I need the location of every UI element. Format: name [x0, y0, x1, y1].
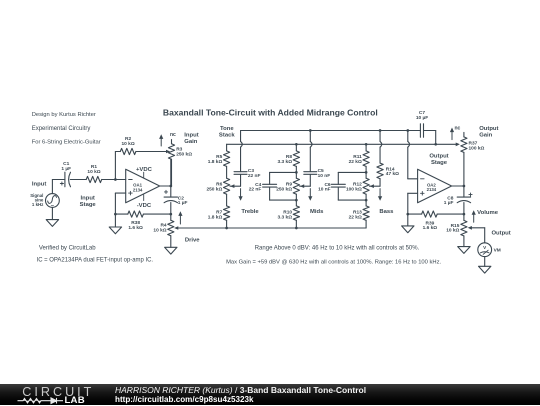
- label V1 signal: [30, 193, 44, 207]
- svg-text:Tone: Tone: [220, 126, 234, 132]
- wire topbus to R14: [379, 131, 381, 164]
- potentiometer R37: [461, 132, 467, 186]
- label Input: [32, 181, 46, 187]
- label Tone Stack: [219, 126, 235, 139]
- op-amp OA2: [418, 169, 452, 203]
- svg-text:Treble: Treble: [241, 209, 259, 215]
- label C5: [318, 168, 331, 179]
- wire pot to R13: [365, 194, 367, 206]
- wire R14 to R12 wiper: [370, 179, 381, 187]
- capacitor C8: [457, 193, 472, 203]
- footer text line 2: [115, 395, 254, 404]
- label R5: [208, 154, 223, 165]
- label C8: [444, 195, 454, 206]
- resistor R5: [224, 151, 230, 167]
- wire C4 top: [270, 172, 297, 184]
- label R12: [346, 182, 362, 193]
- note design-by: [32, 112, 96, 118]
- wire C8 to node C: [463, 203, 465, 215]
- label R39: [423, 220, 438, 231]
- wire R8 to pot: [295, 166, 297, 178]
- wire R11 top: [365, 144, 367, 151]
- wire OA2 plus input: [408, 193, 418, 226]
- svg-text:3.3 kΩ: 3.3 kΩ: [278, 215, 293, 221]
- svg-text:Stack: Stack: [219, 133, 235, 139]
- capacitor C6: [331, 184, 345, 187]
- svg-text:Design by Kurtus Richter: Design by Kurtus Richter: [32, 112, 96, 118]
- capacitor C1: [60, 172, 70, 187]
- potentiometer R12: [363, 178, 369, 194]
- wire pot to R7: [226, 194, 228, 206]
- wire topbus to C5: [309, 131, 311, 172]
- note for-guitar: [32, 140, 101, 146]
- svg-text:Gain: Gain: [479, 132, 492, 138]
- label R9: [276, 182, 292, 193]
- label R37: [469, 141, 485, 152]
- label Drive: [185, 237, 200, 243]
- wire topbus to C3: [240, 131, 242, 172]
- label R11: [349, 154, 363, 165]
- node C4 top: [295, 171, 298, 174]
- svg-text:22 nF: 22 nF: [248, 173, 261, 179]
- svg-text:nc: nc: [454, 126, 460, 132]
- svg-text:10 kΩ: 10 kΩ: [446, 228, 459, 234]
- resistor R8: [293, 151, 299, 167]
- annotation arrow drive: [178, 211, 182, 224]
- svg-text:Drive: Drive: [185, 237, 200, 243]
- label Treble: [241, 209, 259, 215]
- wiper arrow R37: [456, 143, 460, 147]
- node C6 bottom: [365, 199, 368, 202]
- svg-text:250 kΩ: 250 kΩ: [276, 187, 292, 193]
- wiper arrow R9: [300, 184, 304, 188]
- svg-text:1 kHz: 1 kHz: [32, 202, 44, 207]
- svg-text:+VDC: +VDC: [136, 167, 153, 173]
- wire C5 to R9 wiper: [300, 174, 311, 186]
- hop C5 column: [310, 141, 312, 147]
- svg-text:10 nF: 10 nF: [318, 173, 331, 179]
- wiper arrow R15: [468, 226, 472, 230]
- node top bus bass: [379, 129, 382, 132]
- annotation arrow Bass: [378, 189, 382, 201]
- annotation arrow input-gain: [159, 134, 163, 146]
- svg-text:Mids: Mids: [310, 209, 324, 215]
- hop oa2 minus column: [408, 141, 410, 147]
- wire C3 to R6 wiper: [230, 174, 241, 186]
- svg-text:1 µF: 1 µF: [178, 200, 188, 206]
- svg-text:100 kΩ: 100 kΩ: [469, 146, 485, 152]
- label C4: [249, 182, 262, 193]
- label R13: [349, 210, 363, 221]
- svg-text:250 kΩ: 250 kΩ: [176, 151, 192, 157]
- label R14: [386, 166, 399, 177]
- label VM: [494, 248, 501, 254]
- svg-text:Output: Output: [491, 231, 510, 237]
- wire output to C8: [463, 186, 465, 197]
- label R7: [208, 210, 223, 221]
- wire R8 top: [295, 144, 297, 151]
- wire C6 bottom: [338, 187, 366, 200]
- svg-text:1.6 kΩ: 1.6 kΩ: [128, 225, 143, 231]
- ground under R15: [458, 247, 470, 254]
- wire output to R3: [170, 159, 172, 186]
- label C6: [318, 182, 331, 193]
- wire R13 bottom: [365, 220, 367, 228]
- node sub bus bass: [365, 143, 368, 146]
- svg-text:Input: Input: [80, 195, 94, 201]
- svg-text:2134: 2134: [427, 187, 437, 192]
- ground under V1: [46, 220, 58, 227]
- svg-text:1 µF: 1 µF: [444, 200, 454, 206]
- svg-text:Range Above 0 dBV: 46 Hz to 10: Range Above 0 dBV: 46 Hz to 10 kHz with …: [255, 245, 420, 251]
- label C3: [248, 168, 261, 179]
- svg-text:Input: Input: [32, 181, 46, 187]
- wire R10 bottom: [295, 220, 297, 228]
- label OA1: [133, 183, 143, 193]
- logo LAB: [65, 395, 85, 406]
- node OA1 output: [169, 185, 172, 188]
- wire output to C2: [170, 186, 172, 197]
- svg-text:47 kΩ: 47 kΩ: [386, 171, 399, 177]
- label R3: [176, 147, 192, 158]
- wire R5 to pot: [226, 166, 228, 178]
- label Input Gain: [184, 133, 198, 146]
- annotation arrow volume: [472, 210, 476, 222]
- resistor R11: [363, 151, 369, 167]
- ground under VM: [479, 266, 491, 273]
- ground under OA1: [109, 227, 121, 234]
- label C2: [178, 195, 188, 206]
- label nc R3: [170, 132, 176, 138]
- wire feedback vertical: [115, 152, 120, 180]
- annotation arrow Mids: [308, 189, 312, 201]
- wire V1 bottom: [51, 207, 53, 219]
- wire OA2 output: [452, 185, 464, 187]
- svg-text:1.6 kΩ: 1.6 kΩ: [423, 225, 438, 231]
- potentiometer R9: [293, 178, 299, 194]
- wire OA1 plus input: [115, 193, 125, 214]
- svg-text:22 nF: 22 nF: [249, 187, 262, 193]
- resistor R2: [120, 148, 136, 154]
- node OA2 output: [463, 185, 466, 188]
- capacitor C3: [234, 172, 247, 175]
- wire R11 to pot: [365, 166, 367, 178]
- title: [163, 108, 378, 118]
- footer bar: [0, 384, 540, 405]
- note range: [255, 245, 420, 251]
- voltmeter VM: [478, 243, 492, 257]
- node top bus mids: [309, 129, 312, 132]
- wire oa2 minus column: [408, 131, 418, 179]
- svg-text:Input: Input: [184, 133, 198, 139]
- node OA1 inverting input: [114, 178, 117, 181]
- node sub bus c7: [434, 143, 437, 146]
- label Volume: [477, 210, 499, 216]
- svg-text:Bass: Bass: [379, 209, 394, 215]
- svg-text:Max Gain = +59 dBV @ 630 Hz wi: Max Gain = +59 dBV @ 630 Hz with all con…: [226, 259, 441, 265]
- svg-text:Stage: Stage: [431, 160, 448, 166]
- svg-text:Stage: Stage: [80, 202, 97, 208]
- svg-text:Output: Output: [429, 153, 448, 159]
- wire pot to R10: [295, 194, 297, 206]
- resistor R39: [408, 211, 464, 217]
- wiper arrow R3: [166, 150, 170, 154]
- node C: [463, 213, 466, 216]
- label R15: [446, 223, 460, 234]
- label R38: [128, 220, 143, 231]
- note max-gain: [226, 259, 441, 265]
- potentiometer R3: [168, 140, 174, 186]
- capacitor C2: [164, 190, 177, 202]
- wire C1 to R1: [70, 179, 86, 181]
- label -VDC: [137, 203, 152, 209]
- label C7: [416, 110, 428, 121]
- label Output Gain: [479, 126, 498, 138]
- wire V1 top: [52, 180, 65, 194]
- svg-text:10 kΩ: 10 kΩ: [87, 169, 100, 175]
- label R2: [122, 136, 135, 147]
- svg-text:Volume: Volume: [477, 210, 499, 216]
- potentiometer R15: [461, 214, 467, 247]
- label R10: [278, 210, 293, 221]
- logo resistor-diode motif: [0, 384, 70, 405]
- label Bass: [379, 209, 394, 215]
- svg-text:Experimental Circuitry: Experimental Circuitry: [32, 126, 91, 132]
- wire to ground OA1: [114, 214, 116, 227]
- annotation arrow output-gain: [450, 128, 454, 140]
- wiper arrow R12: [370, 184, 374, 188]
- wire top bus: [241, 130, 421, 132]
- resistor R38: [115, 211, 170, 217]
- label Output out: [491, 231, 510, 237]
- voltage source V1: [46, 194, 60, 208]
- svg-text:Gain: Gain: [184, 139, 197, 145]
- wire C6 top: [338, 172, 366, 184]
- svg-text:22 kΩ: 22 kΩ: [349, 215, 362, 221]
- wire R1 to OA1 minus: [102, 179, 126, 181]
- hop R14 column: [380, 141, 382, 147]
- label R1: [87, 164, 100, 175]
- wire bottom bus: [178, 227, 366, 229]
- potentiometer R6: [224, 178, 230, 194]
- svg-text:For 6-String Electric-Guitar: For 6-String Electric-Guitar: [32, 140, 101, 146]
- wire VM to ground: [484, 257, 486, 267]
- label Output Stage: [429, 153, 448, 166]
- svg-text:100 kΩ: 100 kΩ: [346, 187, 362, 193]
- node OA1 plus ground: [114, 213, 117, 216]
- label R4: [153, 223, 167, 234]
- label +VDC: [136, 167, 153, 173]
- svg-text:2134: 2134: [133, 187, 143, 192]
- label Mids: [310, 209, 324, 215]
- wire sub bus: [227, 143, 456, 145]
- capacitor C5: [304, 172, 317, 175]
- label R6: [206, 182, 222, 193]
- svg-text:10 kΩ: 10 kΩ: [153, 227, 166, 233]
- footer text line 1: [115, 385, 366, 395]
- ground under OA2: [402, 226, 414, 233]
- wire C4 bottom: [270, 187, 297, 200]
- wire R5 top: [226, 144, 228, 151]
- svg-text:Verified by CircuitLab: Verified by CircuitLab: [39, 246, 96, 252]
- node C6 top: [365, 171, 368, 174]
- svg-text:IC = OPA2134PA dual FET-input: IC = OPA2134PA dual FET-input op-amp IC.: [37, 257, 154, 263]
- ground under R4: [165, 247, 177, 254]
- resistor R13: [363, 206, 369, 220]
- wire C7 to corner: [424, 131, 436, 145]
- svg-text:Baxandall Tone-Circuit with Ad: Baxandall Tone-Circuit with Added Midran…: [163, 108, 378, 118]
- capacitor C7: [420, 124, 423, 138]
- svg-text:Output: Output: [479, 126, 498, 132]
- hop C3 column: [241, 141, 243, 147]
- label C1: [61, 161, 71, 172]
- svg-text:1.8 kΩ: 1.8 kΩ: [208, 159, 223, 165]
- node sub bus mids: [295, 143, 298, 146]
- resistor R7: [224, 206, 230, 220]
- svg-text:10 kΩ: 10 kΩ: [122, 141, 135, 147]
- svg-text:10 µF: 10 µF: [416, 115, 428, 121]
- label nc R37: [454, 126, 460, 132]
- note ic-type: [37, 257, 154, 263]
- svg-text:1 µF: 1 µF: [61, 166, 71, 172]
- resistor R14: [377, 163, 383, 179]
- op-amp OA1: [126, 169, 160, 203]
- svg-text:nc: nc: [170, 132, 176, 138]
- wire C2 to node B: [170, 203, 172, 215]
- capacitor C4: [263, 184, 277, 187]
- svg-text:3.3 kΩ: 3.3 kΩ: [278, 159, 293, 165]
- note experimental: [32, 126, 91, 132]
- svg-text:22 kΩ: 22 kΩ: [349, 159, 362, 165]
- wire R7 bottom: [226, 220, 228, 228]
- node OA2 plus ground: [406, 213, 409, 216]
- label Input Stage: [80, 195, 97, 208]
- svg-text:1.8 kΩ: 1.8 kΩ: [208, 215, 223, 221]
- label R8: [278, 154, 293, 165]
- node C4 bottom: [295, 199, 298, 202]
- potentiometer R4: [168, 214, 174, 247]
- logo CIRCUIT: [22, 385, 94, 399]
- note verified: [39, 246, 96, 252]
- svg-text:-VDC: -VDC: [137, 203, 152, 209]
- node B: [169, 213, 172, 216]
- resistor R10: [293, 206, 299, 220]
- wiper arrow R6: [230, 184, 234, 188]
- svg-text:10 nF: 10 nF: [318, 187, 331, 193]
- svg-text:VM: VM: [494, 248, 501, 254]
- resistor R1: [86, 176, 102, 182]
- node bus treble: [225, 227, 228, 230]
- wire R2 to R3 wiper: [136, 151, 167, 153]
- node top bus oa2: [406, 129, 409, 132]
- svg-text:250 kΩ: 250 kΩ: [206, 187, 222, 193]
- wiper arrow R4: [174, 226, 178, 230]
- node bus mids: [295, 227, 298, 230]
- wire OA1 output: [160, 185, 171, 187]
- wire R15 wiper to VM: [472, 228, 485, 243]
- label OA2: [427, 182, 437, 192]
- annotation arrow Treble: [239, 189, 243, 201]
